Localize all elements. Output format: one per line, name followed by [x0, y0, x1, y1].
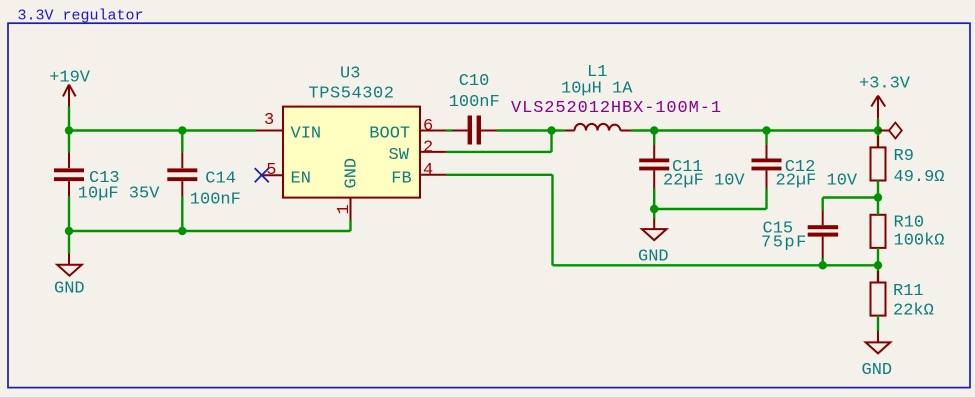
- pin 6 BOOT stub: [420, 130, 446, 132]
- svg-text:4: 4: [423, 161, 433, 180]
- svg-text:GND: GND: [862, 361, 893, 380]
- wire C15 top vertical: [822, 198, 824, 211]
- wire C12 top vertical: [765, 131, 767, 145]
- wire C14 top vertical: [181, 131, 183, 153]
- resistor R9: [871, 136, 945, 192]
- svg-text:VLS252012HBX-100M-1: VLS252012HBX-100M-1: [511, 99, 722, 118]
- wire C11 top vertical: [653, 131, 655, 145]
- wire +3.3V to rail: [877, 119, 879, 131]
- junction C15 bottom: [819, 261, 827, 269]
- svg-text:49.9Ω: 49.9Ω: [894, 168, 945, 187]
- wire FB bottom rail: [553, 264, 879, 266]
- svg-text:22µF 10V: 22µF 10V: [663, 172, 745, 191]
- svg-text:22kΩ: 22kΩ: [893, 302, 934, 321]
- wire R11 to GND: [877, 316, 879, 331]
- wire C11 bottom: [653, 189, 655, 210]
- wire FB horizontal: [446, 174, 553, 176]
- wire C11 to C12 rail: [654, 129, 766, 131]
- wire to GND symbol left: [68, 231, 70, 253]
- power symbol +19V arrow: [63, 85, 76, 107]
- inductor L1: [565, 124, 631, 131]
- junction C12 top: [762, 126, 770, 134]
- svg-text:3: 3: [264, 111, 274, 130]
- svg-text:R10: R10: [894, 213, 925, 232]
- capacitor C12: [752, 144, 858, 190]
- svg-text:22µF 10V: 22µF 10V: [776, 172, 858, 191]
- pin 2 SW stub: [420, 151, 446, 153]
- wire C11-C12 bottom rail: [654, 208, 766, 210]
- wire R10 top: [877, 198, 879, 215]
- resistor R10: [871, 203, 945, 260]
- wire C12 to R9 node: [767, 129, 879, 131]
- junction R9-R10: [874, 193, 882, 201]
- wire BOOT to C10: [446, 129, 452, 131]
- svg-text:C14: C14: [205, 170, 236, 189]
- capacitor C14: [167, 152, 241, 209]
- svg-text:1: 1: [335, 204, 354, 214]
- svg-text:+3.3V: +3.3V: [859, 74, 911, 93]
- wire main VIN rail: [69, 129, 256, 131]
- svg-text:3.3V regulator: 3.3V regulator: [18, 8, 144, 25]
- wire C10 to SW node: [497, 129, 552, 131]
- svg-text:VIN: VIN: [291, 124, 322, 143]
- svg-text:SW: SW: [389, 146, 410, 165]
- power symbol +3.3V arrow: [871, 96, 885, 119]
- wire R9 bottom: [877, 181, 879, 198]
- pin 1 GND stub: [350, 198, 352, 220]
- wire SW horizontal: [446, 151, 552, 153]
- svg-text:GND: GND: [343, 158, 362, 189]
- junction R10-R11 FB node: [874, 261, 882, 269]
- svg-text:GND: GND: [638, 248, 669, 267]
- junction main output node: [874, 126, 882, 134]
- resistor R11: [871, 271, 934, 327]
- capacitor C11: [639, 144, 745, 190]
- ground symbol left: [57, 253, 82, 275]
- no-connect X on EN: [255, 168, 269, 182]
- svg-text:2: 2: [423, 139, 433, 158]
- svg-text:100kΩ: 100kΩ: [894, 232, 945, 251]
- wire FB vertical: [551, 175, 553, 265]
- svg-text:C10: C10: [459, 72, 490, 91]
- junction C11 bottom: [650, 205, 658, 213]
- junction at C14 top: [178, 126, 186, 134]
- wire pin1 to GND rail: [349, 220, 351, 232]
- wire C15 bottom: [822, 258, 824, 265]
- wire junction to C15 top: [823, 196, 878, 198]
- svg-text:U3: U3: [340, 65, 360, 84]
- wire SW node to L1: [552, 129, 565, 131]
- wire C11 to GND: [653, 209, 655, 219]
- wire R11 top: [877, 265, 879, 282]
- node diamond marker: [889, 123, 902, 139]
- wire diamond stub: [878, 130, 889, 132]
- IC U3 body: [283, 107, 420, 198]
- junction C14 bottom: [178, 227, 186, 235]
- junction C13 bottom: [65, 227, 73, 235]
- wire SW node down: [550, 131, 552, 152]
- svg-text:R11: R11: [893, 282, 924, 301]
- wire bottom-left GND rail: [69, 230, 351, 232]
- svg-text:6: 6: [423, 117, 433, 136]
- capacitor C15: [761, 211, 838, 259]
- svg-text:10µF 35V: 10µF 35V: [78, 185, 160, 204]
- pin 3 VIN stub: [256, 130, 283, 132]
- svg-text:5: 5: [266, 161, 276, 180]
- ground symbol C11: [642, 219, 667, 241]
- wire +19V to main rail: [68, 107, 70, 153]
- pin 4 FB stub: [420, 174, 446, 176]
- svg-text:75pF: 75pF: [761, 234, 808, 253]
- svg-text:BOOT: BOOT: [369, 124, 410, 143]
- wire C14 bottom: [181, 197, 183, 231]
- junction at C13 top: [65, 126, 73, 134]
- ground symbol R11: [866, 331, 891, 353]
- wire C12 bottom vertical: [765, 189, 767, 210]
- svg-text:100nF: 100nF: [449, 93, 500, 112]
- svg-text:TPS54302: TPS54302: [309, 85, 395, 104]
- svg-text:GND: GND: [54, 279, 85, 298]
- junction C11 top: [650, 126, 658, 134]
- svg-text:100nF: 100nF: [190, 191, 241, 210]
- wire R10 bottom: [877, 248, 879, 265]
- wire L1 to C11 node: [631, 129, 654, 131]
- capacitor C13: [54, 152, 160, 203]
- svg-text:10µH 1A: 10µH 1A: [561, 79, 633, 98]
- svg-text:R9: R9: [894, 147, 914, 166]
- svg-text:EN: EN: [291, 169, 311, 188]
- wire R9 top: [877, 131, 879, 148]
- wire C13 bottom: [68, 197, 70, 231]
- capacitor C10: [452, 116, 497, 145]
- pin 5 EN stub: [260, 174, 283, 176]
- junction SW node: [547, 126, 555, 134]
- svg-text:FB: FB: [391, 169, 411, 188]
